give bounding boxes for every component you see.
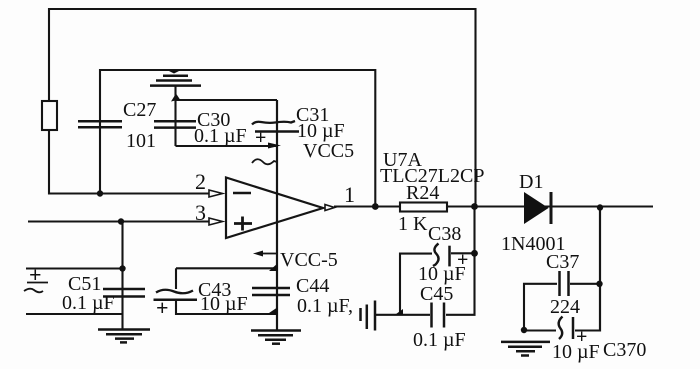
wire: output node down to C37 / C370 bbox=[599, 207, 601, 332]
wire: C30 bottom to VCC5 node bbox=[176, 145, 278, 147]
junction dot C38 right on rail bbox=[471, 250, 478, 257]
C43 left vertical lower and loop bottom wire bbox=[176, 300, 274, 314]
resistor (left, unlabeled) bbox=[42, 101, 57, 130]
op-amp plus sign bbox=[234, 217, 252, 231]
svg-text:1 K: 1 K bbox=[398, 213, 428, 235]
svg-text:0.1 µF: 0.1 µF bbox=[62, 292, 115, 314]
wire: C38 left lead and vertical to C45 bbox=[400, 254, 432, 315]
resistor R24 bbox=[400, 203, 447, 212]
wire: C37 right lead bbox=[570, 283, 600, 285]
ground (top, inverted earth) bbox=[163, 75, 188, 78]
svg-text:2: 2 bbox=[195, 169, 206, 194]
svg-text:10 µF: 10 µF bbox=[297, 120, 345, 142]
svg-text:10 µF: 10 µF bbox=[418, 263, 466, 285]
capacitor C51 plates bbox=[103, 288, 145, 291]
ground (below C51) bbox=[98, 328, 150, 331]
wire: C51 lower stub bbox=[26, 313, 123, 315]
capacitor C30 plates bbox=[154, 120, 196, 123]
wire: second feedback from C27 top to output node bbox=[100, 70, 375, 205]
svg-text:101: 101 bbox=[126, 130, 156, 152]
svg-text:+: + bbox=[29, 262, 42, 287]
junction blob at VCC-5 rail bbox=[269, 263, 278, 271]
wire: output net bbox=[334, 205, 653, 207]
wire: ground node to C370 left plate bbox=[524, 329, 556, 331]
svg-text:10 µF: 10 µF bbox=[552, 341, 600, 363]
svg-text:D1: D1 bbox=[519, 171, 543, 193]
pin 1 output arrow symbol bbox=[325, 205, 335, 211]
op-amp minus sign bbox=[233, 192, 251, 195]
svg-text:VCC5: VCC5 bbox=[303, 140, 354, 162]
svg-text:C370: C370 bbox=[603, 339, 646, 361]
svg-text:1: 1 bbox=[344, 182, 355, 207]
capacitor C43/C44 loop top wire bbox=[176, 267, 276, 269]
diode D1 cathode bar bbox=[550, 192, 553, 224]
VCC rail vertical through op-amp bbox=[276, 100, 278, 330]
C43 left vertical upper bbox=[175, 268, 177, 289]
wire: pin 3 input bbox=[28, 220, 209, 222]
svg-text:C44: C44 bbox=[296, 275, 329, 297]
curved plate mark near C51 bbox=[24, 289, 43, 293]
junction dot at C51 branch on pin3 wire bbox=[118, 218, 124, 224]
capacitor C31 straight plate bbox=[255, 130, 299, 133]
junction blob C45 ground tee bbox=[394, 309, 403, 316]
svg-text:10 µF: 10 µF bbox=[200, 293, 248, 315]
wire: top feedback from resistor to output rail bbox=[49, 9, 476, 205]
ground (below C44 rail) bbox=[251, 329, 301, 332]
junction dot output at rail x474 bbox=[471, 203, 478, 210]
junction dot at C27 branch on pin2 wire bbox=[97, 190, 103, 196]
capacitor C45 plates bbox=[430, 303, 433, 328]
capacitor C43 curved plate bbox=[156, 290, 193, 294]
pin 3 arrow symbol bbox=[209, 218, 223, 225]
squiggle above op-amp power pin bbox=[252, 159, 277, 164]
svg-text:C27: C27 bbox=[123, 99, 156, 121]
arrow tick under top wire at ground bbox=[168, 71, 180, 74]
arrow at VCC-5 label bbox=[253, 251, 263, 257]
svg-text:VCC-5: VCC-5 bbox=[280, 249, 338, 271]
capacitor C31 curved plate bbox=[252, 121, 295, 125]
svg-text:3: 3 bbox=[195, 200, 206, 225]
op-amp U7A triangle bbox=[226, 178, 323, 239]
capacitor C44 plates bbox=[252, 287, 290, 290]
arrow at VCC5 node bbox=[268, 143, 281, 149]
wire: rail down to C45 right lead bbox=[446, 205, 475, 315]
wire: ground to C30 bbox=[174, 86, 176, 146]
arrow on C30 branch node bbox=[171, 94, 180, 102]
svg-text:C37: C37 bbox=[546, 251, 579, 273]
wire: VCC-5 node arrow bbox=[262, 253, 277, 255]
svg-text:R24: R24 bbox=[406, 182, 439, 204]
wire: C370 right lead bbox=[575, 329, 600, 331]
capacitor C38 curved plate bbox=[433, 244, 439, 267]
pin 2 arrow symbol bbox=[209, 190, 223, 197]
junction dot C37 right on x600 bbox=[596, 281, 602, 287]
junction dot C37 ground corner bbox=[521, 327, 527, 333]
ground (bottom right) bbox=[501, 341, 550, 344]
plus bar mark near C51 bbox=[27, 282, 48, 284]
junction dot at x600 on output wire bbox=[597, 204, 603, 210]
wire: resistor bottom to pin2 wire bbox=[49, 130, 209, 194]
capacitor C38 straight plate bbox=[448, 246, 451, 267]
svg-text:+: + bbox=[255, 127, 266, 149]
capacitor C37 plates bbox=[558, 271, 561, 296]
wire: C38 right lead to rail bbox=[451, 252, 475, 254]
svg-text:0.1 µF,: 0.1 µF, bbox=[297, 295, 353, 317]
junction dot at C51 upper stub bbox=[119, 265, 125, 271]
svg-text:+: + bbox=[156, 295, 169, 320]
wire: node to VCC rail top bbox=[176, 99, 278, 101]
capacitor C370 straight plate bbox=[572, 317, 575, 339]
svg-text:0.1 µF: 0.1 µF bbox=[413, 329, 466, 351]
ground (sideways, left of C45) bbox=[359, 308, 362, 321]
junction blob at loop bottom rail bbox=[266, 307, 278, 315]
capacitor C27 plates bbox=[78, 120, 122, 123]
svg-text:224: 224 bbox=[550, 296, 580, 318]
capacitor C43 straight plate bbox=[154, 299, 198, 302]
wire: C51 branch vertical from pin3 node bbox=[121, 222, 123, 330]
svg-text:0.1 µF: 0.1 µF bbox=[194, 125, 247, 147]
svg-text:C45: C45 bbox=[420, 283, 453, 305]
svg-text:C38: C38 bbox=[428, 223, 461, 245]
wire: C51 upper stub bbox=[26, 267, 123, 269]
wire: C37 left lead bbox=[524, 284, 557, 330]
wire: sideways ground to C45 left plate bbox=[376, 314, 430, 316]
diode D1 body bbox=[524, 192, 549, 224]
junction dot output at x375 bbox=[372, 203, 379, 210]
capacitor C370 curved plate bbox=[559, 317, 563, 340]
